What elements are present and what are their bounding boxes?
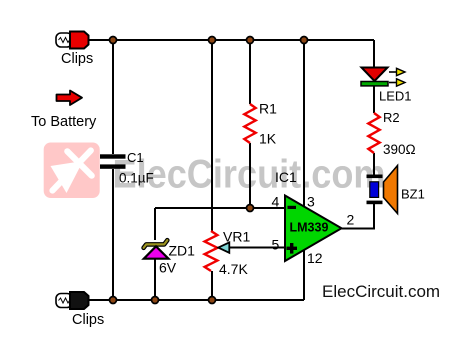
svg-text:390Ω: 390Ω (383, 142, 416, 157)
svg-text:BZ1: BZ1 (401, 187, 425, 202)
wire R2 to buzzer (373, 153, 375, 175)
wire pin4 horizontal (155, 207, 285, 209)
wire buzzer to output corner (341, 203, 374, 229)
svg-text:2: 2 (347, 212, 355, 228)
svg-text:R1: R1 (259, 101, 277, 117)
svg-text:IC1: IC1 (275, 169, 297, 185)
node bottom VR1 junction (209, 297, 216, 304)
potentiometer VR1 (205, 231, 230, 271)
resistor R1 (244, 104, 255, 143)
svg-text:Clips: Clips (61, 51, 93, 67)
wire ZD1 lower (154, 258, 156, 300)
node bottom ZD1 junction (152, 297, 159, 304)
wire R1 upper (249, 40, 251, 104)
node top VR1 junction (209, 37, 216, 44)
svg-text:To Battery: To Battery (31, 114, 97, 130)
zener diode ZD1 (144, 240, 169, 259)
svg-text:12: 12 (307, 250, 323, 266)
wire LED branch down (373, 40, 375, 68)
watermark logo (44, 143, 100, 199)
wire VR1 upper (211, 40, 213, 231)
LED1 (361, 68, 405, 87)
to-battery arrow (57, 91, 83, 106)
svg-text:4.7K: 4.7K (219, 261, 248, 277)
node top clip junction (110, 37, 117, 44)
capacitor C1 (100, 154, 126, 168)
wire R1 lower (249, 143, 251, 208)
node bottom clip junction (110, 297, 117, 304)
svg-text:4: 4 (272, 194, 280, 210)
svg-text:ZD1: ZD1 (169, 243, 196, 259)
node top pin3 junction (301, 37, 308, 44)
svg-text:0.1µF: 0.1µF (119, 171, 154, 186)
wire bottom rail (89, 299, 304, 301)
svg-text:R2: R2 (383, 110, 400, 125)
wire LED to R2 (373, 85, 375, 113)
wire pin12 to bottom rail (303, 250, 305, 300)
svg-text:ElecCircuit.com: ElecCircuit.com (322, 282, 440, 301)
svg-text:LED1: LED1 (379, 89, 412, 104)
svg-text:C1: C1 (127, 150, 144, 165)
node R1 pin4 junction (247, 205, 254, 212)
op-amp IC1 LM339 (285, 196, 342, 262)
buzzer BZ1 (367, 166, 398, 214)
wire VR1 lower (211, 271, 213, 300)
wire ZD1 upper (154, 208, 156, 240)
svg-text:VR1: VR1 (223, 229, 250, 245)
wire pin3 from rail (303, 40, 305, 207)
wire VR1 wiper to pin5 (228, 247, 285, 249)
svg-text:5: 5 (272, 237, 280, 253)
node top R1 junction (247, 37, 254, 44)
svg-text:6V: 6V (159, 260, 177, 276)
svg-text:3: 3 (307, 194, 315, 210)
wire top rail (88, 39, 374, 41)
svg-text:1K: 1K (259, 131, 277, 147)
svg-text:LM339: LM339 (290, 221, 329, 235)
wire left rail upper (112, 40, 114, 154)
resistor R2 (368, 113, 379, 153)
clip top (56, 32, 89, 49)
wire left rail lower (112, 169, 114, 300)
clip bottom (56, 292, 89, 309)
svg-text:Clips: Clips (72, 312, 104, 328)
